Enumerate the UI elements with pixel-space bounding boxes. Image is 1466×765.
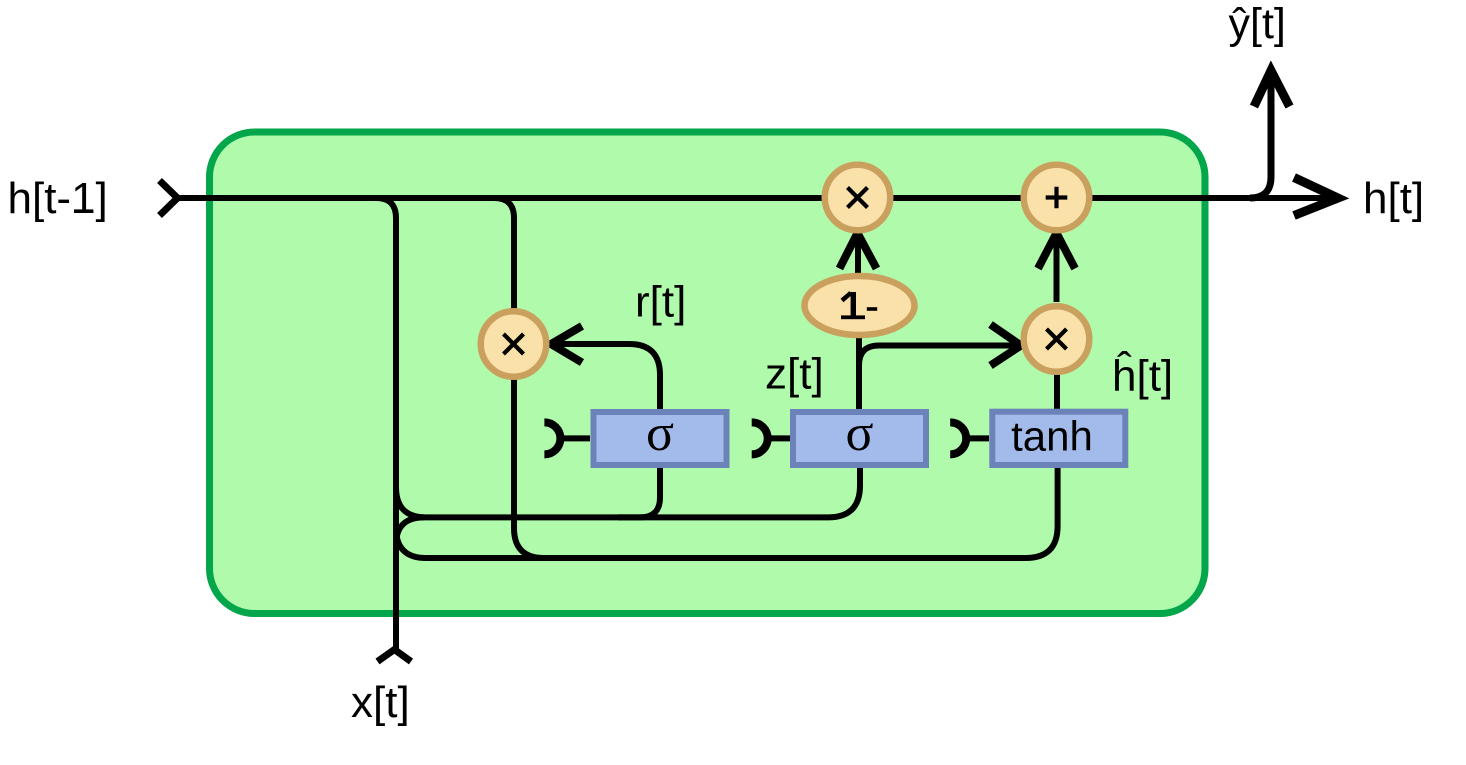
wire r[t] from sigma1 to multiply	[554, 344, 660, 409]
input fork h[t-1]	[160, 181, 178, 216]
wire bus H2 (x[t] to tanh)	[396, 468, 1058, 558]
svg-text:z[t]: z[t]	[765, 350, 824, 399]
svg-text:ŷ[t]: ŷ[t]	[1229, 0, 1286, 48]
arrowhead z branch	[991, 325, 1022, 366]
wire z[t] from sigma2 up to 1- ellipse	[856, 338, 862, 410]
arrowhead h[t] output	[1294, 178, 1338, 216]
1- ellipse node	[805, 276, 915, 335]
wire branch H1 up into sigma1	[618, 467, 660, 517]
svg-text:x[t]: x[t]	[351, 678, 410, 727]
input fork x[t]	[378, 650, 412, 662]
gate box sigma1	[594, 412, 727, 465]
arrowhead r[t]	[551, 326, 582, 363]
merge arc before tanh	[950, 422, 966, 454]
svg-text:σ: σ	[845, 405, 873, 462]
wire main h line	[176, 195, 1332, 201]
arrowhead into plus	[1038, 233, 1075, 269]
arrowhead into main multiply	[840, 233, 877, 269]
wire tanh top to hhat multiply	[1054, 373, 1060, 409]
wire 1- ellipse up to multiply on main line	[855, 237, 861, 274]
gate box tanh	[992, 412, 1125, 465]
wire z branch right to hhat multiply	[859, 346, 1016, 366]
svg-text:ĥ[t]: ĥ[t]	[1112, 350, 1173, 401]
GRU cell box	[210, 132, 1206, 614]
arrowhead y[t] output	[1254, 71, 1290, 107]
wire drop A from main line down to x[t] fork	[376, 198, 396, 649]
wire bus H1 (h[t-1] to gates)	[396, 467, 860, 517]
svg-text:h[t-1]: h[t-1]	[8, 174, 108, 223]
wire branch up to y output	[1250, 74, 1271, 198]
svg-text:σ: σ	[646, 405, 674, 462]
wire hhat multiply up to plus	[1054, 237, 1060, 302]
hhat multiply node x3	[1024, 306, 1090, 372]
merge arc before sigma2	[752, 422, 768, 454]
wire H1 lower fillet at drop A	[396, 517, 424, 545]
svg-text:r[t]: r[t]	[635, 278, 686, 327]
wire drop B through reset multiply	[494, 198, 544, 558]
main multiply node x2	[825, 165, 891, 231]
gate box sigma2	[793, 412, 926, 465]
merge arc before sigma1	[544, 422, 560, 454]
svg-text:tanh: tanh	[1011, 413, 1093, 460]
plus node	[1024, 165, 1090, 231]
reset multiply node x1	[481, 311, 547, 377]
svg-text:h[t]: h[t]	[1363, 174, 1424, 223]
